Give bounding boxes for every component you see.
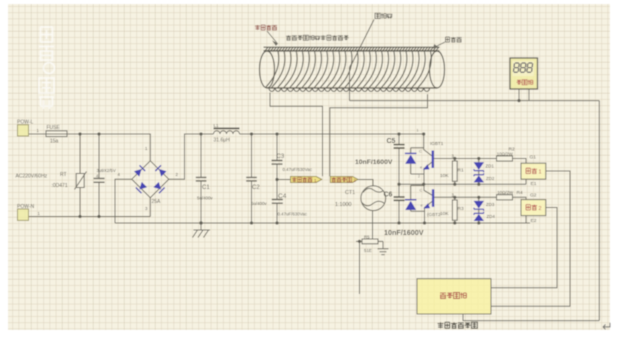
node midpoint IGBT — [422, 183, 425, 186]
IGBT Q2 IGBT2 — [423, 189, 434, 208]
pin letters IGBT2 — [420, 188, 424, 208]
wire ZD1 ZD2 leads — [478, 159, 480, 185]
node midpoint C5C6 — [397, 183, 400, 186]
wire IGBT1 emitter — [424, 162, 432, 195]
svg-text:R3: R3 — [458, 206, 464, 212]
pin letters IGBT1 — [417, 129, 424, 179]
node IGBT1 collector — [422, 132, 425, 135]
svg-text:C5: C5 — [387, 138, 396, 145]
wire top rail L1 to IGBT1 collector — [240, 133, 424, 135]
wire C6 vertical — [398, 184, 400, 223]
ground at R5 — [378, 249, 389, 255]
display 温控表 — [510, 58, 538, 89]
svg-text:ZD4: ZD4 — [487, 214, 496, 219]
svg-text:1: 1 — [314, 178, 317, 183]
arrow 保温棉 callout — [433, 42, 445, 48]
box 驱动1 — [521, 163, 546, 179]
svg-text:CT1: CT1 — [345, 190, 355, 196]
wire thermocouple down through coil — [349, 68, 351, 101]
node R1 bottom — [453, 183, 456, 186]
svg-text:POW-L: POW-L — [17, 120, 34, 126]
arrow 感应线圈 callout — [267, 31, 278, 45]
label 隔离温度控制 — [438, 322, 478, 328]
svg-text::0D471: :0D471 — [52, 183, 68, 189]
svg-text:5u/400v: 5u/400v — [251, 201, 267, 206]
label 感应线圈 — [255, 25, 277, 30]
node C2 bottom — [250, 221, 253, 224]
svg-text:10Ω/2W: 10Ω/2W — [497, 190, 514, 195]
wire CT1 bottom to R5 — [372, 211, 374, 239]
IGBT Q1 IGBT1 — [423, 151, 434, 170]
bridge rectifier D 25A — [132, 161, 169, 198]
svg-text:E2: E2 — [531, 218, 537, 224]
zener ZD2 — [474, 173, 484, 182]
svg-text:25A: 25A — [152, 199, 162, 205]
node C1 bottom — [199, 221, 202, 224]
terminal POW-L — [18, 125, 29, 136]
port 谐振电容2 — [330, 176, 358, 182]
svg-text:2: 2 — [539, 206, 542, 212]
svg-text:C1: C1 — [202, 185, 210, 191]
svg-text:10K: 10K — [440, 211, 449, 217]
wire driver1 E pin — [525, 179, 527, 184]
wire driver2 E pin — [525, 216, 527, 223]
wire R1 leads — [454, 159, 456, 185]
wire display stubs — [519, 89, 529, 101]
node R3 top — [453, 196, 456, 199]
wire POW-N line — [29, 216, 151, 218]
node C1 top — [199, 132, 202, 135]
capacitor C6 — [394, 197, 405, 200]
node R3 bottom — [453, 221, 456, 224]
svg-text:C: C — [420, 188, 423, 193]
wire midpoint line — [399, 183, 526, 185]
wire driver2 to control — [491, 208, 557, 288]
svg-text:POW-N: POW-N — [17, 204, 35, 210]
svg-text:↵: ↵ — [602, 319, 613, 334]
svg-text:2: 2 — [353, 178, 356, 183]
wire R5 junction down to control — [359, 241, 361, 294]
capacitor C1 — [196, 177, 207, 181]
node display stub — [517, 99, 520, 102]
watermark — [39, 27, 55, 109]
wire thermo line to right edge — [350, 100, 600, 102]
wire C5 vertical — [398, 134, 400, 184]
svg-text:C2: C2 — [252, 185, 260, 191]
node C6 bottom — [397, 221, 400, 224]
svg-text:3u9X2/5V: 3u9X2/5V — [97, 168, 116, 173]
svg-text:C6: C6 — [384, 192, 393, 199]
wire fuse to bridge top — [67, 134, 150, 161]
node C4 bottom — [275, 221, 278, 224]
wire thermocouple diagonal — [349, 20, 374, 70]
resistor R3 — [452, 200, 457, 220]
svg-text:R4: R4 — [517, 190, 523, 196]
wire C1 vertical — [200, 134, 202, 223]
zener ZD4 — [474, 212, 484, 221]
resistor R1 — [452, 161, 457, 181]
wire ground stem at C1 — [200, 223, 202, 230]
coil bottom loops — [269, 88, 430, 91]
node C2 top — [250, 132, 253, 135]
wire bottom return to control box — [463, 314, 599, 321]
wire R3 leads — [454, 197, 456, 223]
diode D1 (IGBT1 antiparallel) — [405, 153, 417, 163]
wire bridge right corner up to top rail — [169, 134, 214, 179]
wire ZD3 ZD4 leads — [478, 197, 480, 223]
wire IGBT diode1 links — [411, 148, 424, 174]
svg-text:2: 2 — [418, 175, 420, 179]
resistor R2 — [497, 156, 513, 161]
coil top rope band — [264, 47, 440, 51]
svg-text:10K: 10K — [440, 173, 449, 179]
wire coil left terminal down — [270, 93, 323, 177]
current transformer CT1 — [361, 186, 386, 211]
svg-text:R1: R1 — [458, 167, 464, 173]
node C3 top — [275, 132, 278, 135]
box 控制电路 — [417, 279, 491, 314]
capacitor C5 — [394, 145, 405, 148]
resistor R4 — [497, 195, 513, 200]
svg-text:R5: R5 — [364, 234, 370, 239]
node RT top — [78, 132, 81, 135]
wire gate2 line — [434, 197, 526, 199]
svg-text:0.47uF/630Vac: 0.47uF/630Vac — [278, 211, 308, 216]
wire gate1 line — [434, 159, 526, 164]
capacitor C3 — [272, 161, 283, 165]
wire X2 cap vertical — [98, 134, 100, 217]
node ZD2 bottom — [477, 183, 480, 186]
terminal POW-N — [18, 209, 29, 220]
wire POW-L to fuse — [29, 133, 47, 135]
node ZD1 top — [477, 157, 480, 160]
inductor L1 — [214, 128, 240, 134]
svg-text:31.6μH: 31.6μH — [214, 138, 231, 144]
node ZD4 bottom — [477, 221, 480, 224]
svg-text:1: 1 — [417, 129, 419, 133]
capacitor X2 3u9 — [94, 178, 105, 182]
svg-text:RT: RT — [60, 172, 67, 178]
node X2 top — [97, 132, 100, 135]
svg-text:10nF/1600V: 10nF/1600V — [384, 228, 424, 237]
capacitor C2 — [246, 177, 257, 181]
node R1 top — [453, 157, 456, 160]
diode D2 (IGBT2 antiparallel) — [405, 200, 417, 210]
svg-text:1:1000: 1:1000 — [335, 202, 352, 208]
node ZD3 top — [477, 196, 480, 199]
node X2 bottom — [97, 215, 100, 218]
wire coil right terminal down — [330, 94, 428, 176]
svg-text:FUSE: FUSE — [47, 125, 61, 131]
ground at C1 — [193, 230, 211, 238]
capacitor C4 — [272, 200, 283, 204]
wire R5 leads — [356, 240, 383, 242]
svg-text:ZD1: ZD1 — [486, 163, 495, 168]
port 谐振电容1 — [291, 176, 322, 182]
label 塑料机械发泡机加热炉筒 — [286, 35, 349, 40]
svg-text:L1: L1 — [214, 123, 220, 128]
wire bridge bottom to POW-N line — [149, 198, 151, 217]
wire right edge vertical — [598, 101, 600, 321]
svg-text:C: C — [419, 149, 422, 154]
node IGBT2 emitter — [423, 221, 426, 224]
svg-text:10Ω/2W: 10Ω/2W — [497, 151, 514, 156]
svg-text:G2: G2 — [530, 193, 537, 199]
svg-text:ZD3: ZD3 — [486, 202, 495, 207]
svg-text:(GBT2: (GBT2 — [427, 212, 441, 217]
wire IGBT1 collector — [424, 134, 432, 156]
wire C2 vertical — [251, 134, 253, 223]
svg-text:E1: E1 — [531, 181, 537, 187]
svg-text:15a: 15a — [50, 138, 59, 144]
resistor R5 — [362, 239, 378, 244]
varistor RT — [75, 172, 87, 190]
svg-text:AC220V/60Hz: AC220V/60Hz — [16, 174, 48, 180]
wire port2 to CT1 — [358, 180, 373, 186]
svg-text:10nF/1600V: 10nF/1600V — [355, 159, 393, 166]
box 驱动2 — [521, 200, 546, 216]
wire RT vertical — [79, 134, 81, 217]
svg-text:1: 1 — [539, 170, 542, 176]
label 保温棉 — [446, 37, 462, 42]
svg-text:5u/400v: 5u/400v — [197, 196, 213, 201]
wire bottom rail — [115, 222, 530, 224]
svg-text:51E: 51E — [364, 248, 372, 253]
wire ground stem at R5 — [382, 241, 384, 248]
wire C3-C4 mid stub to port1 — [277, 179, 290, 181]
fuse FUSE — [46, 131, 67, 137]
node RT bottom — [78, 215, 81, 218]
wire driver1 to control — [491, 171, 570, 306]
heating coil cylinder — [260, 51, 445, 88]
svg-text:ZD2: ZD2 — [486, 176, 495, 181]
svg-text:0.47uF/630Vac: 0.47uF/630Vac — [283, 167, 313, 172]
coil windings — [266, 52, 432, 88]
wire IGBT diode2 links — [411, 185, 425, 211]
wire C3 C4 vertical — [276, 134, 278, 223]
wire IGBT2 emitter — [425, 201, 433, 223]
svg-text:C4: C4 — [278, 193, 287, 200]
wire bridge left corner to DC- down — [115, 179, 132, 223]
label 热电偶 — [375, 13, 392, 18]
svg-text:IGBT1: IGBT1 — [430, 141, 444, 146]
node C34 mid — [275, 178, 278, 181]
svg-text:G1: G1 — [530, 154, 537, 160]
zener ZD3 — [474, 201, 484, 211]
node R5 left — [358, 240, 361, 243]
node C5 top — [397, 132, 400, 135]
zener ZD1 — [474, 162, 484, 172]
svg-text:C3: C3 — [277, 154, 285, 160]
